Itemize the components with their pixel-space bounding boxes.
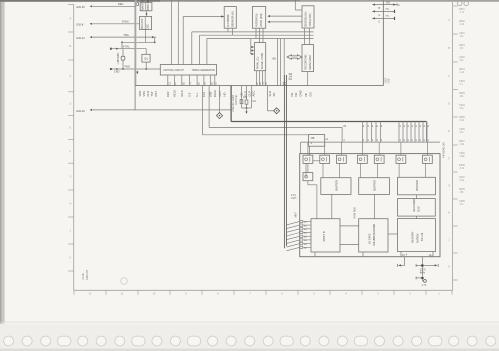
svg-text:7.5: 7.5 bbox=[385, 8, 389, 11]
svg-text:RAM R/W: RAM R/W bbox=[354, 207, 357, 219]
svg-text:I/O GATE: I/O GATE bbox=[368, 233, 371, 244]
svg-text:FNO: FNO bbox=[125, 66, 130, 69]
svg-text:VDD: VDD bbox=[138, 91, 142, 97]
svg-text:100: 100 bbox=[386, 1, 391, 4]
svg-text:B: B bbox=[70, 44, 72, 48]
svg-text:0/2: 0/2 bbox=[289, 78, 293, 81]
svg-text:B: B bbox=[448, 46, 450, 50]
svg-text:PARALLEL-: PARALLEL- bbox=[257, 56, 260, 69]
svg-text:CIRCUIT: CIRCUIT bbox=[86, 269, 89, 280]
svg-text:G: G bbox=[70, 175, 72, 179]
svg-text:22u: 22u bbox=[460, 131, 465, 134]
svg-text:GB: GB bbox=[311, 136, 315, 140]
svg-text:M8-7: M8-7 bbox=[294, 211, 297, 217]
svg-text:K: K bbox=[70, 256, 72, 260]
svg-text:+5V: +5V bbox=[272, 57, 277, 61]
svg-text:DECODER: DECODER bbox=[412, 199, 416, 212]
svg-text:32.76: 32.76 bbox=[420, 270, 426, 272]
svg-text:CNO: CNO bbox=[114, 71, 120, 74]
svg-text:FM2: FM2 bbox=[166, 91, 170, 97]
svg-text:PB HEAD (M): PB HEAD (M) bbox=[442, 142, 446, 158]
svg-text:D: D bbox=[448, 101, 450, 105]
svg-text:CLP: CLP bbox=[248, 91, 252, 97]
svg-text:X-TAL: X-TAL bbox=[123, 45, 131, 48]
svg-text:CSY: CSY bbox=[218, 91, 222, 97]
svg-text:TST: TST bbox=[150, 91, 154, 97]
svg-text:SERIAL CONV: SERIAL CONV bbox=[261, 53, 264, 70]
svg-text:BUS: BUS bbox=[417, 206, 421, 212]
svg-text:WAVEFM: WAVEFM bbox=[141, 0, 144, 10]
svg-text:VAR OSC: VAR OSC bbox=[141, 18, 144, 29]
svg-text:5.6k: 5.6k bbox=[460, 119, 465, 122]
svg-text:8kHz: 8kHz bbox=[420, 272, 426, 274]
svg-text:ACLK: ACLK bbox=[173, 90, 177, 97]
svg-text:MEMORY: MEMORY bbox=[411, 231, 415, 243]
svg-text:AGC: AGC bbox=[251, 91, 255, 97]
svg-text:S-3: S-3 bbox=[188, 92, 192, 97]
svg-text:BUFFER: BUFFER bbox=[415, 180, 419, 191]
svg-text:BLK8: BLK8 bbox=[213, 90, 217, 97]
svg-text:6.8p: 6.8p bbox=[460, 179, 465, 182]
svg-text:DEMODULA-: DEMODULA- bbox=[304, 11, 308, 26]
svg-text:TRG: TRG bbox=[123, 33, 128, 37]
svg-text:SYNC: SYNC bbox=[122, 20, 129, 24]
svg-text:LD-45: LD-45 bbox=[82, 273, 85, 280]
svg-text:CLO: CLO bbox=[146, 91, 150, 97]
svg-text:1/2H: 1/2H bbox=[291, 197, 296, 200]
svg-text:WAVEFORM: WAVEFORM bbox=[309, 55, 312, 69]
svg-text:SYNC SEL: SYNC SEL bbox=[148, 0, 150, 10]
svg-text:TOR (FMP): TOR (FMP) bbox=[308, 13, 312, 26]
svg-text:1.8k: 1.8k bbox=[460, 143, 465, 146]
svg-text:ATOR (FM): ATOR (FM) bbox=[259, 14, 263, 27]
svg-text:G20-25: G20-25 bbox=[76, 6, 85, 9]
svg-text:NC: NC bbox=[294, 93, 298, 97]
svg-text:HD: HD bbox=[222, 93, 226, 97]
svg-text:O9B: O9B bbox=[388, 78, 391, 83]
svg-text:G: G bbox=[448, 184, 450, 188]
svg-text:GO: GO bbox=[309, 92, 313, 96]
svg-text:C: C bbox=[448, 74, 450, 78]
svg-text:100p: 100p bbox=[460, 155, 466, 158]
svg-text:BUFFER: BUFFER bbox=[334, 180, 338, 191]
svg-text:4.7k: 4.7k bbox=[460, 11, 465, 14]
svg-text:K: K bbox=[448, 265, 450, 269]
svg-text:G20-12: G20-12 bbox=[76, 37, 85, 40]
svg-text:MATRIX: MATRIX bbox=[415, 233, 419, 243]
svg-text:64 x 64: 64 x 64 bbox=[420, 232, 424, 241]
svg-text:DENNOR (M): DENNOR (M) bbox=[231, 11, 235, 27]
svg-text:RECORDING: RECORDING bbox=[304, 54, 307, 69]
svg-text:NC: NC bbox=[290, 93, 294, 97]
svg-text:47u: 47u bbox=[460, 203, 465, 206]
svg-text:RUN SEL: RUN SEL bbox=[235, 94, 238, 105]
svg-text:DEO: DEO bbox=[118, 2, 124, 6]
svg-text:H: H bbox=[448, 211, 450, 215]
svg-text:A: A bbox=[448, 18, 450, 22]
svg-text:SD: SD bbox=[272, 93, 276, 97]
svg-text:47p: 47p bbox=[460, 107, 465, 110]
svg-text:10u: 10u bbox=[460, 35, 465, 38]
svg-text:2.2k: 2.2k bbox=[460, 23, 465, 26]
svg-text:C: C bbox=[378, 21, 380, 24]
svg-text:1.4875MHz: 1.4875MHz bbox=[118, 52, 120, 65]
svg-text:CRYSTAL CIRCUIT: CRYSTAL CIRCUIT bbox=[163, 69, 184, 72]
svg-text:3.3k: 3.3k bbox=[460, 167, 465, 170]
svg-text:G20-8: G20-8 bbox=[76, 24, 84, 27]
svg-text:IC-H49001: IC-H49001 bbox=[226, 14, 230, 27]
svg-text:COLUMN DECODER: COLUMN DECODER bbox=[374, 224, 376, 246]
svg-text:INTERPOL-: INTERPOL- bbox=[255, 13, 259, 27]
svg-text:DSC: DSC bbox=[147, 24, 150, 29]
svg-text:H: H bbox=[70, 202, 72, 206]
svg-text:1.2k: 1.2k bbox=[460, 71, 465, 74]
svg-text:S-1: S-1 bbox=[195, 92, 199, 97]
svg-text:G20-16: G20-16 bbox=[76, 110, 85, 113]
svg-text:D: D bbox=[70, 102, 72, 106]
svg-text:Q1: Q1 bbox=[144, 57, 148, 61]
svg-text:GND: GND bbox=[299, 90, 303, 96]
svg-text:4.7C: 4.7C bbox=[422, 285, 427, 287]
svg-text:NF: NF bbox=[304, 93, 308, 97]
svg-text:SHIFT B: SHIFT B bbox=[322, 231, 326, 241]
svg-text:7.5: 7.5 bbox=[385, 15, 389, 18]
svg-text:TIMING GENERATOR: TIMING GENERATOR bbox=[192, 69, 216, 72]
svg-text:BUFFER: BUFFER bbox=[373, 180, 377, 191]
svg-text:4CLK: 4CLK bbox=[180, 90, 184, 97]
svg-text:A: A bbox=[70, 16, 72, 20]
svg-text:C: C bbox=[70, 74, 72, 78]
svg-text:RST: RST bbox=[154, 91, 158, 97]
svg-text:VSS: VSS bbox=[142, 91, 146, 97]
svg-text:SLO: SLO bbox=[268, 91, 272, 97]
svg-text:E: E bbox=[70, 126, 72, 130]
svg-text:33p: 33p bbox=[460, 59, 465, 62]
svg-text:E: E bbox=[448, 129, 450, 133]
svg-text:10p: 10p bbox=[243, 96, 248, 99]
